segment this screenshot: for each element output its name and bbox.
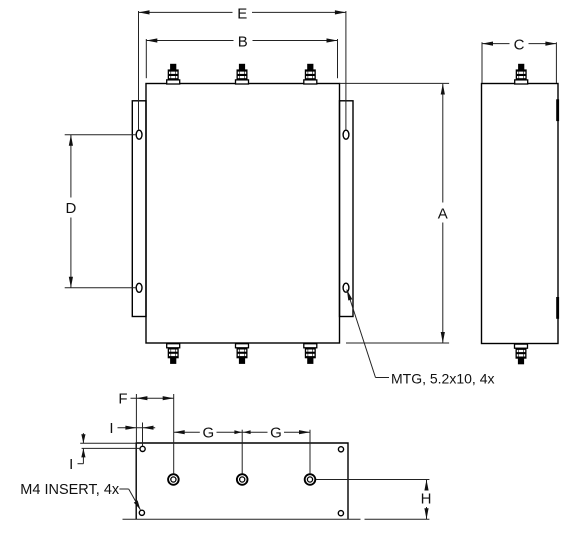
svg-text:C: C <box>514 37 525 54</box>
svg-text:MTG, 5.2x10, 4x: MTG, 5.2x10, 4x <box>391 371 494 387</box>
svg-text:M4 INSERT, 4x: M4 INSERT, 4x <box>20 482 120 498</box>
svg-text:H: H <box>421 491 432 508</box>
svg-text:E: E <box>237 6 247 23</box>
svg-text:I: I <box>109 420 113 437</box>
svg-text:G: G <box>202 424 214 441</box>
svg-text:I: I <box>69 456 73 473</box>
svg-text:D: D <box>65 200 76 217</box>
svg-text:G: G <box>270 424 282 441</box>
svg-text:A: A <box>438 205 448 222</box>
svg-text:B: B <box>238 34 248 51</box>
svg-text:F: F <box>118 390 127 407</box>
